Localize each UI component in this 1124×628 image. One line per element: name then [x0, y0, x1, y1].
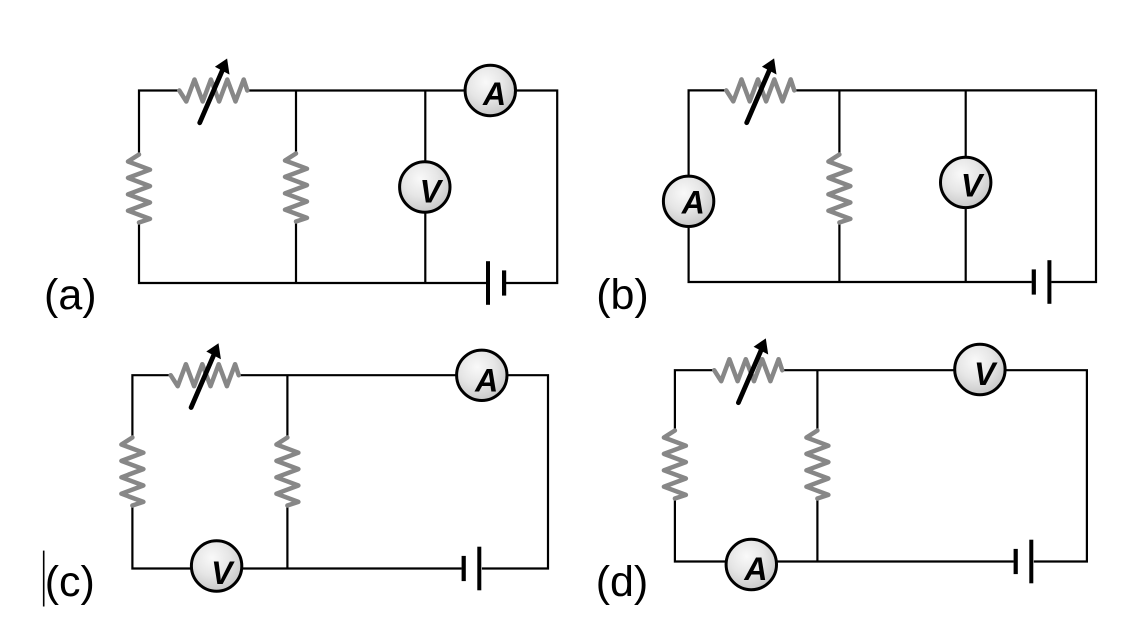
svg-text:V: V — [420, 173, 444, 209]
svg-text:V: V — [961, 168, 985, 204]
svg-text:A: A — [474, 363, 498, 399]
svg-text:A: A — [482, 76, 506, 112]
svg-text:(d): (d) — [596, 558, 649, 606]
svg-text:(c): (c) — [45, 558, 95, 606]
svg-text:A: A — [681, 185, 705, 221]
svg-text:(b): (b) — [596, 271, 649, 319]
svg-text:(a): (a) — [44, 271, 97, 319]
svg-text:A: A — [743, 551, 767, 587]
svg-text:V: V — [974, 356, 998, 392]
svg-text:V: V — [211, 555, 235, 591]
